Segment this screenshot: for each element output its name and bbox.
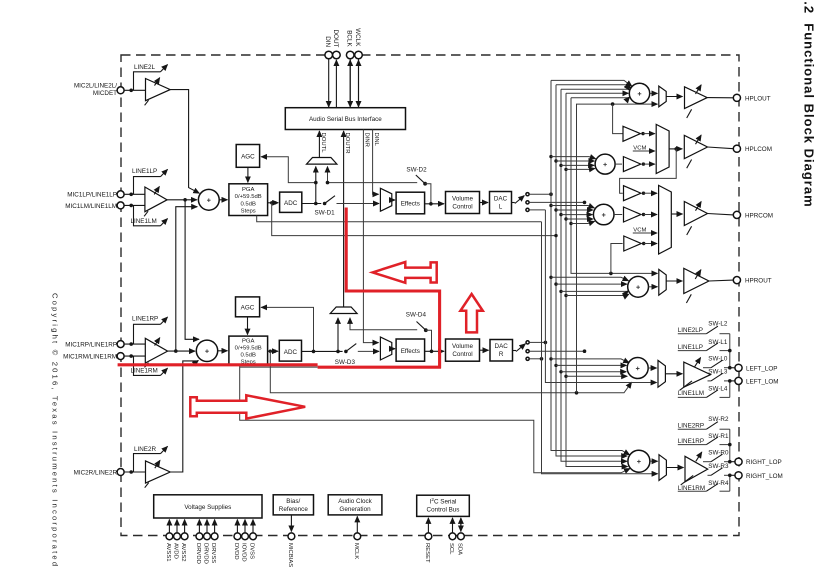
svg-text:Copyright © 2016, Texas Instru: Copyright © 2016, Texas Instruments Inco… [51,293,60,568]
mux LEFT line out [658,360,682,387]
DAC L output selector [512,192,587,211]
LINE1RM select [131,356,168,375]
switch SW-L0 [703,356,730,368]
pin MIC1LP/LINE1LP [67,191,145,199]
pin DVDD [233,520,241,560]
VCM buffer B5 [624,236,657,251]
Effects L box [396,192,425,214]
mux HPLCOM [656,124,682,173]
svg-text:LINE1LP: LINE1LP [678,344,703,351]
wire stub under red annotation [240,366,318,368]
pin DVSS [249,520,257,560]
svg-text:HPLCOM: HPLCOM [745,146,772,153]
DINL line [373,130,379,195]
pin LEFT_LOP [730,364,778,372]
Volume Control R box [446,339,480,361]
pin SDA [456,518,464,555]
svg-text:BCLK: BCLK [346,30,353,47]
ADC L box [280,192,302,212]
switch SW-L2 [678,321,730,334]
svg-text:AGC: AGC [241,153,255,160]
AGC R feedback wire [261,307,313,351]
wire LINE2R out up to right sum [170,360,198,472]
VCM buffer B3 [624,186,658,201]
pin HPROUT [709,277,772,285]
switch SW-R2 [678,416,730,429]
svg-text:HPROUT: HPROUT [745,278,772,285]
svg-text:Volume: Volume [452,195,474,202]
svg-text:RIGHT_LOM: RIGHT_LOM [746,473,783,480]
svg-text:L: L [499,203,503,210]
fan wires into HPLCOM sum [551,157,596,170]
svg-text:0/+59.5dB: 0/+59.5dB [235,194,262,200]
svg-text:Effects: Effects [401,201,420,208]
svg-text:Audio Clock: Audio Clock [338,498,372,505]
wire PGA R bottom cross line to right line sum [240,365,630,473]
svg-text:RIGHT_LOP: RIGHT_LOP [746,459,782,466]
wire left amp down to right sum [185,200,199,339]
mux RIGHT line out [659,455,684,481]
svg-text:LEFT_LOP: LEFT_LOP [746,365,778,372]
switch SW-L3 [708,368,730,381]
svg-text:SDA: SDA [456,543,462,555]
svg-text:SW-D4: SW-D4 [406,312,427,319]
playback mux R [380,337,395,360]
pin DRVDD [195,520,203,564]
svg-text:SW-R0: SW-R0 [708,450,729,457]
svg-text:MIC1RP/LINE1RP: MIC1RP/LINE1RP [65,342,117,349]
amp HPRCOM [684,202,707,236]
svg-text:I2C Serial: I2C Serial [430,497,457,505]
wire Z route HPLCOM to HPRCOM buffer [620,149,677,193]
pin BCLK [346,30,354,107]
amp LINE1R [145,338,168,368]
summing node HPRCOM [593,204,622,225]
wire PGA R out cross line to left line sum [270,351,631,394]
wire VC R to DAC R [480,349,489,351]
VCM buffer B1 [623,126,655,141]
mux HPROUT [659,269,683,295]
wire right amp up to left sum [176,207,197,350]
VCM label L [633,146,655,152]
VCM buffer B2 [623,157,654,172]
svg-text:MICBIAS: MICBIAS [287,543,293,567]
svg-text:SW-R4: SW-R4 [708,480,729,487]
bus vertical v5 with branch to VCM buffer [569,98,657,276]
pin HPLOUT [707,94,770,102]
LINE1LP select [132,168,168,194]
right out bus wires [728,429,732,491]
Audio Serial Bus Interface box U1 [285,108,405,130]
record mux R (to DOUTR) [330,307,357,314]
wire Effects L to Volume Control L [425,203,444,205]
amp LEFT line driver [680,358,711,391]
svg-text:SW-R1: SW-R1 [708,433,729,440]
svg-text:LINE2L: LINE2L [134,64,156,71]
DOUTR line [344,131,350,307]
bus vertical B [542,222,658,474]
svg-text:Bias/: Bias/ [286,498,300,505]
bus vertical v2 [554,85,627,456]
svg-text:MIC1LP/LINE1LP: MIC1LP/LINE1LP [67,192,117,199]
svg-text:DOUT: DOUT [332,30,339,48]
svg-text:SW-R3: SW-R3 [708,463,729,470]
red arrow right [190,395,305,418]
svg-text:HPRCOM: HPRCOM [745,212,773,219]
svg-text:0.5dB: 0.5dB [240,201,255,207]
pin MIC1LM/LINE1LM [65,202,145,210]
pin AVDD [173,520,181,559]
svg-text:0.5dB: 0.5dB [240,352,255,358]
left out bus wires [728,334,732,398]
svg-text:AVSS2: AVSS2 [180,543,186,562]
switch SW-L1 [678,339,730,351]
red arrow left [373,262,437,283]
svg-text:SW-L1: SW-L1 [708,339,728,346]
pin AVSS2 [180,520,188,562]
svg-text:MICDET: MICDET [93,90,117,97]
svg-text:SW-L3: SW-L3 [708,368,728,375]
switch SW-D4 [406,312,434,354]
svg-text:SW-D2: SW-D2 [406,166,427,173]
pin SCL [448,518,456,555]
amp LINE2R [145,460,171,487]
pin AVSS1 [165,520,173,562]
summing node left record [198,189,219,210]
wire PGA L out cross line [272,203,556,236]
svg-text:AVDD: AVDD [173,543,179,559]
red annotation underline right [318,366,441,369]
LINE2R select [134,446,168,472]
DOUTL line [319,131,325,158]
svg-text:Control Bus: Control Bus [427,506,460,513]
AGC L box [236,145,259,183]
PGA R box [229,336,268,365]
pin MICBIAS [287,515,295,567]
pin MCLK [353,516,361,559]
Voltage Supplies box [154,495,262,518]
dashed diagram border [121,55,739,536]
svg-text:MCLK: MCLK [353,543,359,559]
DINR line [363,130,378,343]
svg-text:HPLOUT: HPLOUT [745,95,771,102]
svg-text:ADC: ADC [284,349,298,356]
PGA L box [229,184,268,216]
switch SW-R1 [678,433,730,445]
svg-text:LINE1LM: LINE1LM [678,390,704,397]
record mux L (to DOUTL) [307,158,337,165]
amp HPROUT [684,268,709,303]
svg-text:Effects: Effects [401,348,420,355]
svg-text:LINE2LP: LINE2LP [678,327,703,334]
DAC R output selector [513,341,587,361]
pin WCLK [354,28,362,107]
svg-text:MIC2L/LINE2L/: MIC2L/LINE2L/ [74,82,117,89]
AGC R box [236,297,260,335]
bus vertical v3 [559,89,627,461]
mux HPLOUT [659,86,683,107]
svg-text:Volume: Volume [452,343,474,350]
switch SW-R0 [703,450,730,462]
pin DRVSS [210,520,218,564]
svg-text:PGA: PGA [242,187,255,193]
red annotation underline left [118,363,318,366]
svg-text:IOVDD: IOVDD [241,543,247,562]
svg-text:WCLK: WCLK [354,28,361,47]
amp LINE1L [144,187,167,217]
svg-text:LINE1RM: LINE1RM [131,367,158,374]
wire Effects R to Volume Control R [425,350,444,352]
pin DRVDD [203,520,211,564]
svg-text:SCL: SCL [448,543,454,555]
pin MIC2R/LINE2R [74,469,146,477]
summing node HPROUT [628,276,658,297]
summing node LEFT line out [627,358,656,379]
amp HPLCOM [684,135,707,168]
wire PGA L bottom cross line [257,216,542,222]
svg-text:LINE2RP: LINE2RP [678,422,704,429]
svg-text:DVSS: DVSS [249,543,255,559]
svg-text:RESET: RESET [424,543,430,563]
switch SW-R4 [678,480,730,492]
fan wires into LEFT line sum [551,359,629,376]
wire LINE2L out to left sum [170,90,199,194]
svg-text:8.2 Functional Block Diagram: 8.2 Functional Block Diagram [802,0,817,208]
LINE1LM select [131,205,168,225]
pin DIN [324,36,332,107]
svg-text:Control: Control [452,351,472,358]
fan wires into HPRCOM sum [551,206,595,224]
svg-text:AGC: AGC [241,304,255,311]
pin DOUT [332,30,340,109]
svg-text:AVSS1: AVSS1 [165,543,171,562]
svg-text:Reference: Reference [279,506,309,513]
svg-text:PGA: PGA [242,338,255,344]
node left amp out [167,198,197,202]
svg-text:DRVSS: DRVSS [210,543,216,563]
mux HPRCOM [659,185,683,254]
ADC R box [279,340,301,361]
fan wires into HPROUT sum [551,277,629,295]
node right amp out [168,349,195,353]
wire PGA R to ADC R [268,350,278,353]
summing node RIGHT line out [628,450,658,472]
svg-text:DIN: DIN [324,36,331,47]
svg-text:MIC2R/LINE2R: MIC2R/LINE2R [74,469,118,476]
pin HPRCOM [708,211,774,219]
pin RIGHT_LOP [730,458,782,466]
svg-text:LINE1RP: LINE1RP [132,316,158,323]
svg-text:LINE1LM: LINE1LM [131,218,157,225]
wire mux L right input [326,167,418,185]
svg-text:DAC: DAC [494,195,508,202]
svg-text:MIC1RM/LINE1RM: MIC1RM/LINE1RM [63,354,117,361]
svg-text:MIC1LM/LINE1LM: MIC1LM/LINE1LM [65,203,117,210]
red annotation path [346,208,439,369]
DAC L box [490,192,512,214]
pin LEFT_LOM [730,377,779,385]
svg-text:DRVDD: DRVDD [203,543,209,564]
svg-text:DINR: DINR [364,133,370,147]
svg-text:SW-R2: SW-R2 [708,416,729,423]
svg-text:ADC: ADC [284,200,298,207]
svg-text:DVDD: DVDD [233,543,239,560]
Bias/Reference box [273,495,313,515]
wire SW-D1 node up to record mux [314,167,318,204]
svg-text:SW-L0: SW-L0 [708,356,728,363]
svg-text:Voltage Supplies: Voltage Supplies [184,504,231,511]
pin RIGHT_LOM [730,472,783,480]
red arrow up [460,294,482,332]
switch SW-L4 [678,386,730,398]
wire ADC L out / switch SW-D1 [302,196,379,217]
pin IOVDD [241,520,249,562]
switch SW-R3 [708,463,730,476]
pin MIC2L/LINE2L/MICDET [74,82,146,97]
pin RESET [424,518,432,563]
Effects R box [396,339,425,361]
VCM label R [633,228,657,234]
AGC L feedback wire [261,157,316,183]
LINE2L select [134,64,168,90]
bus vertical v1 [549,80,629,455]
svg-text:Control: Control [452,203,472,210]
wire PGA L to ADC L [268,201,279,204]
amp HPLOUT [685,85,708,118]
wire node up to record mux R [337,318,339,352]
svg-text:Audio Serial Bus Interface: Audio Serial Bus Interface [309,116,382,123]
Audio Clock Generation box [328,495,382,515]
DAC R box [490,340,513,362]
pin MIC1RP/LINE1RP [65,341,145,349]
wire ADC R out / switch SW-D3 [302,344,380,366]
svg-text:DOUTL: DOUTL [320,133,326,154]
summing node right record [196,340,217,361]
svg-text:DAC: DAC [495,343,509,350]
amp RIGHT line driver [681,452,708,485]
summing node HPLOUT [629,83,657,103]
svg-text:Steps: Steps [241,209,256,215]
playback mux L [380,188,395,211]
fan wires into HPLOUT sum [551,80,632,97]
svg-text:Generation: Generation [339,506,371,513]
svg-text:SW-D3: SW-D3 [335,359,356,366]
pin HPLCOM [708,145,772,153]
wire mux R right input [350,318,417,330]
bus vertical A [545,210,656,383]
svg-text:LINE2R: LINE2R [134,446,157,453]
switch SW-D2 [406,166,432,205]
svg-text:0/+59.5dB: 0/+59.5dB [235,345,262,351]
bus vertical v4 [564,93,627,466]
wire sum to PGA L [219,199,227,201]
VCM buffer B4 [624,207,658,222]
I2C Serial Control Bus box [417,495,470,516]
svg-text:SW-D1: SW-D1 [315,209,336,216]
svg-text:LEFT_LOM: LEFT_LOM [746,378,779,385]
svg-text:DOUTR: DOUTR [344,133,350,154]
svg-text:R: R [499,351,504,358]
svg-text:SW-L4: SW-L4 [708,386,728,393]
LINE1RP select [132,316,168,344]
svg-text:DRVDD: DRVDD [195,543,201,564]
Volume Control L box [446,192,480,214]
amp LINE2L [145,78,171,106]
wire VC L to DAC L [480,202,489,204]
pin MIC1RM/LINE1RM [63,353,145,361]
bus vertical v6 with branch to VCM buffer [577,102,658,393]
summing node HPLCOM [595,154,622,174]
svg-text:LINE1RP: LINE1RP [678,438,704,445]
svg-text:DINL: DINL [373,133,379,147]
wire sum to PGA R [218,350,228,352]
svg-text:LINE1LP: LINE1LP [132,168,157,175]
